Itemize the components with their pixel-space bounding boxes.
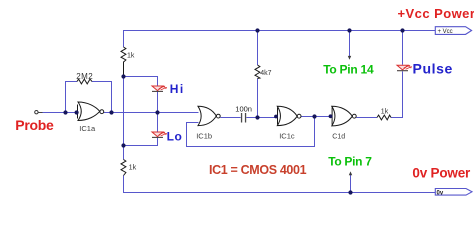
resistor R3 4k7 (vertical) xyxy=(255,65,260,79)
wire Hi LED to signal line xyxy=(157,92,159,113)
svg-text:4k7: 4k7 xyxy=(260,70,271,77)
LED D2 Lo xyxy=(152,132,167,138)
svg-text:IC1a: IC1a xyxy=(79,124,96,133)
LED D1 Hi xyxy=(152,86,167,92)
wire bottom 0v rail xyxy=(124,176,436,193)
svg-text:C1d: C1d xyxy=(332,133,345,140)
wire IC1b output to capacitor xyxy=(220,117,240,119)
node B junction xyxy=(121,143,125,147)
power flag 0v xyxy=(435,189,472,197)
wire node A to Hi LED xyxy=(124,77,158,87)
node junction IC1a input xyxy=(75,110,79,114)
node junction pin14 rail xyxy=(347,28,351,32)
op-amp gate IC1c (NOR, inputs tied) xyxy=(277,106,301,125)
wire signal line to Lo LED xyxy=(157,113,159,133)
probe terminal xyxy=(35,111,38,114)
arrow to pin 7 xyxy=(349,171,352,192)
svg-text:+Vcc Power: +Vcc Power xyxy=(398,6,474,21)
wire node B down to resistor R4 xyxy=(123,146,125,160)
wire Lo LED to node B xyxy=(124,138,158,146)
svg-text:To Pin 14: To Pin 14 xyxy=(323,63,374,77)
node junction 4k7 top xyxy=(255,28,259,32)
node A junction xyxy=(121,74,125,78)
resistor R4 1k (bottom left vertical) xyxy=(121,160,126,176)
node junction pulse rail xyxy=(400,28,404,32)
node junction 2M2 right xyxy=(109,110,113,114)
wire 2M2 feedback left xyxy=(66,82,78,113)
node junction 2M2 left xyxy=(63,110,67,114)
node junction IC1c input xyxy=(274,115,278,119)
arrow to pin 14 xyxy=(348,31,351,60)
wire 4k7 pullup top xyxy=(257,31,259,66)
node junction Hi/Lo LED signal xyxy=(155,110,159,114)
op-amp gate IC1a (NOR, inputs tied) xyxy=(78,102,104,121)
power flag +Vcc xyxy=(435,27,471,35)
capacitor C1 100n xyxy=(241,113,242,123)
svg-text:0v: 0v xyxy=(437,190,444,196)
svg-text:Probe: Probe xyxy=(15,117,54,133)
svg-text:1k: 1k xyxy=(381,109,389,116)
svg-text:To Pin 7: To Pin 7 xyxy=(328,155,372,169)
node junction cap 4k7 xyxy=(255,115,259,119)
svg-text:+ Vcc: + Vcc xyxy=(438,29,453,35)
svg-text:2M2: 2M2 xyxy=(76,72,93,81)
wire 4k7 pullup bottom xyxy=(257,79,259,118)
svg-text:1k: 1k xyxy=(127,52,135,59)
svg-text:IC1 = CMOS 4001: IC1 = CMOS 4001 xyxy=(209,163,307,177)
svg-text:Hi: Hi xyxy=(170,82,185,96)
wire 2M2 feedback right xyxy=(92,82,112,113)
svg-text:100n: 100n xyxy=(235,105,252,114)
svg-text:Lo: Lo xyxy=(167,130,183,144)
svg-text:Pulse: Pulse xyxy=(413,61,453,77)
wire probe input xyxy=(40,112,78,114)
resistor R2 2M2 (feedback horizontal) xyxy=(77,79,92,84)
node junction IC1d input xyxy=(329,114,333,118)
op-amp gate IC1d (NOR, inputs tied) xyxy=(332,106,356,126)
resistor R1 1k (top left vertical) xyxy=(121,47,126,77)
node junction IC1c output feedback xyxy=(312,114,316,118)
wire capacitor to IC1c input xyxy=(246,117,277,119)
svg-text:IC1b: IC1b xyxy=(196,132,212,141)
wire IC1d output to R5 xyxy=(356,117,377,119)
wire R5 to Pulse LED vertical xyxy=(391,71,403,117)
wire top +Vcc rail xyxy=(124,31,436,48)
resistor R5 1k (horizontal to pulse LED) xyxy=(377,115,391,120)
wire IC1a output to IC1b input xyxy=(104,112,199,114)
svg-text:1k: 1k xyxy=(129,162,137,171)
op-amp gate IC1b (NOR) xyxy=(198,106,220,125)
svg-text:IC1c: IC1c xyxy=(279,132,295,141)
wire IC1c output to IC1d input xyxy=(301,116,332,118)
wire divider vertical node A to node B xyxy=(123,77,125,146)
node junction pin7 rail xyxy=(348,190,352,194)
wire Pulse LED to +Vcc rail xyxy=(402,31,404,65)
LED D3 Pulse xyxy=(397,65,412,71)
wire feedback loop IC1c output to IC1b lower input xyxy=(187,117,315,147)
svg-text:0v Power: 0v Power xyxy=(412,165,471,180)
